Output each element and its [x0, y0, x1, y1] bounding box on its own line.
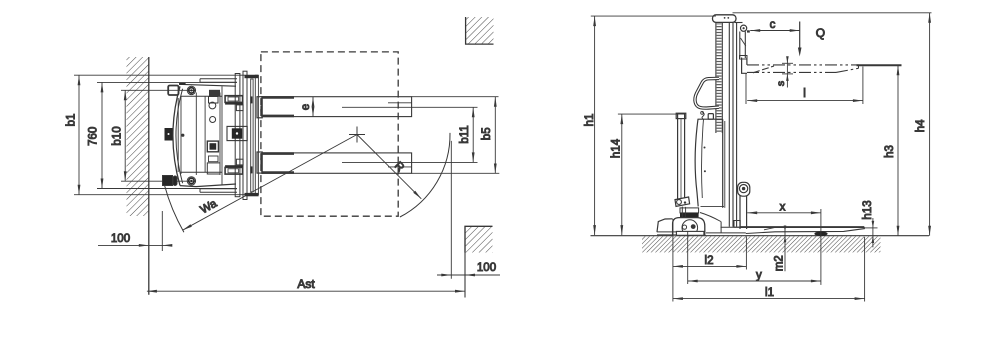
frame small rect bottom [207, 163, 220, 174]
body top edge [179, 84, 236, 86]
svg-text:m2: m2 [774, 255, 786, 271]
rear bumper [657, 219, 673, 232]
dimension l1 [673, 237, 865, 302]
truck body outline rear arcs [173, 86, 180, 185]
dimension l2 [673, 219, 747, 302]
dimension h14 [610, 114, 677, 235]
svg-text:h4: h4 [915, 119, 927, 132]
load roller [814, 232, 827, 237]
frame dark block top [209, 90, 220, 96]
svg-text:h13: h13 [862, 200, 874, 219]
center pivot dot [181, 134, 184, 137]
dimension h13 [862, 200, 878, 247]
fork heel bracket top [225, 96, 262, 118]
frame hex nut [209, 102, 216, 109]
tiller handle loop [695, 78, 719, 108]
dimension h4 [733, 13, 932, 236]
svg-text:b5: b5 [481, 127, 493, 140]
svg-text:b10: b10 [112, 126, 124, 145]
dimension b5 [481, 97, 495, 174]
phantom carriage bars [739, 32, 741, 59]
top pulley [735, 22, 743, 24]
dimension 100 left [98, 211, 172, 251]
svg-text:b1: b1 [66, 114, 78, 127]
steer wheel top [187, 86, 195, 94]
raised fork heel [742, 58, 747, 74]
rear strut [678, 114, 685, 199]
drive unit dark band [680, 213, 699, 217]
dimension 100 right [437, 262, 500, 276]
dimension b10 [112, 90, 196, 181]
body bottom edge [180, 184, 236, 187]
chassis lines [721, 226, 741, 228]
dimension b11 [459, 107, 473, 162]
svg-text:100: 100 [111, 233, 130, 245]
dimension s [775, 56, 793, 87]
dimension Ast [147, 277, 465, 291]
lowered fork blade [740, 226, 864, 228]
aisle boundary line [464, 226, 466, 297]
cover strip [177, 98, 179, 172]
extension line from swept arc to 100 dim [450, 141, 452, 279]
wall face line [148, 57, 150, 295]
Wa arc [165, 185, 184, 232]
R radius line [357, 135, 421, 199]
Wa radius line [182, 135, 357, 231]
steer wheel bottom [187, 177, 195, 185]
svg-text:760: 760 [88, 127, 100, 146]
dimension 760 [88, 82, 237, 188]
skid plate [676, 231, 704, 235]
hatched block bottom right [465, 226, 493, 252]
fork bottom blade [262, 153, 500, 173]
drive unit box [680, 208, 699, 213]
hatched block top right [466, 17, 494, 44]
caster block top [168, 86, 178, 96]
dimension h1 [584, 16, 716, 235]
ground line [591, 235, 930, 237]
strut bottom bracket [675, 197, 690, 206]
phantom heel chamfer [753, 66, 774, 73]
dimension h3 [884, 65, 898, 236]
drive wheel [682, 220, 698, 236]
mast columns [728, 22, 730, 226]
fork heel bracket bottom [225, 152, 262, 174]
body box [698, 118, 723, 120]
fork shank [739, 187, 741, 230]
mast cap [713, 15, 737, 23]
shank pivot housing [738, 182, 750, 196]
load arrow Q [798, 22, 825, 57]
frame dark box mid [207, 141, 218, 152]
dimension y [688, 231, 821, 284]
dimension e [300, 97, 313, 117]
dimension l [746, 67, 863, 105]
turning center cross [349, 127, 365, 143]
svg-text:h14: h14 [610, 138, 622, 158]
svg-text:s: s [775, 81, 787, 86]
dimension m2 [774, 226, 787, 272]
R arc [400, 133, 450, 217]
svg-text:h3: h3 [884, 145, 896, 158]
svg-text:l2: l2 [705, 255, 714, 267]
dimension c [750, 19, 800, 31]
rear black unit [165, 128, 173, 141]
svg-text:b11: b11 [459, 125, 471, 143]
svg-text:h1: h1 [584, 114, 596, 127]
load surface thick line [857, 64, 902, 66]
svg-text:Q: Q [816, 26, 825, 40]
frame small rect low [209, 156, 219, 162]
tiller pivot knob [708, 114, 713, 120]
svg-text:c: c [770, 19, 776, 31]
pallet dashed rectangle [261, 52, 398, 216]
control lever [702, 113, 704, 120]
carriage cap bars [245, 75, 259, 78]
dimension x [747, 201, 821, 285]
carriage outer plate [255, 75, 258, 195]
fork top blade [262, 97, 499, 117]
svg-text:e: e [300, 104, 312, 110]
caster block bottom [163, 176, 173, 186]
svg-text:y: y [756, 269, 762, 281]
svg-text:100: 100 [477, 262, 496, 274]
carriage inner plate [251, 79, 253, 192]
dimension b1 [66, 75, 258, 195]
mast plate B [243, 71, 247, 199]
wheel housing [673, 218, 705, 236]
raised fork blade phantom [747, 64, 859, 66]
frame circle 2 [210, 117, 216, 123]
mast chain channel [715, 22, 717, 133]
inner frame [181, 96, 222, 172]
leg rail bottom [200, 189, 237, 193]
svg-text:l1: l1 [765, 287, 774, 299]
svg-text:x: x [780, 201, 786, 213]
svg-text:Ast: Ast [297, 277, 315, 291]
center coupler [227, 126, 247, 140]
wall hatch [127, 57, 149, 216]
svg-text:l: l [803, 88, 806, 100]
mast plate A [235, 74, 240, 197]
leg rail top [200, 79, 237, 83]
chain ladder [717, 24, 722, 133]
ground hatch [642, 236, 881, 252]
